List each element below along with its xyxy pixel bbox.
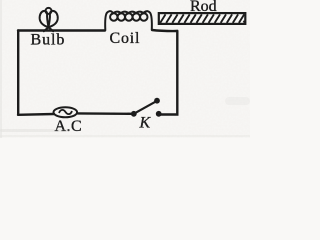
svg-text:K: K — [139, 115, 152, 132]
svg-text:Rod: Rod — [190, 0, 217, 15]
svg-text:Bulb: Bulb — [31, 31, 66, 48]
svg-text:Coil: Coil — [110, 30, 141, 47]
svg-text:A.C: A.C — [55, 118, 83, 135]
